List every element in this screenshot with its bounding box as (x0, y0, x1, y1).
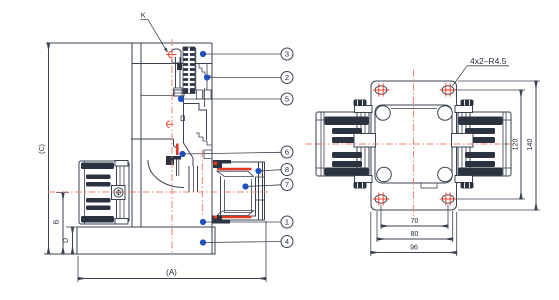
red nib bottom (214, 216, 218, 219)
dim 80 extensions (376, 211, 378, 242)
dim 140 (535, 81, 537, 210)
svg-text:D: D (63, 238, 70, 243)
terminal top nut (354, 100, 367, 107)
svg-text:4: 4 (285, 237, 289, 246)
tube shoulder line (141, 95, 174, 97)
big circle TR (438, 106, 453, 121)
leader dot 4 (200, 239, 206, 245)
zigzag boss (196, 133, 212, 145)
svg-text:5: 5 (285, 95, 289, 104)
svg-text:7: 7 (285, 180, 289, 189)
centerline horizontal (right view) (305, 143, 512, 145)
small plunger block (177, 63, 182, 70)
leader dot 2 (204, 74, 210, 80)
svg-text:70: 70 (411, 218, 419, 225)
leader dot 7 (242, 183, 248, 189)
cartridge outline (212, 162, 265, 220)
coil body (316, 112, 369, 176)
coil bottom band (81, 216, 114, 223)
balloon 2 (281, 72, 293, 84)
stem below seal (176, 156, 178, 176)
connector tab (354, 134, 376, 148)
passage left wall (183, 96, 185, 143)
dimension (A) (78, 278, 266, 280)
nut circle (114, 188, 123, 197)
wall nub (181, 116, 185, 121)
big circle BL (377, 167, 392, 182)
body face square (375, 105, 452, 183)
bottom gland wedge (217, 211, 254, 216)
big circle TL (376, 106, 391, 121)
dimension D extension (66, 226, 78, 228)
balloon 1 (281, 216, 293, 228)
coil left (right view) (316, 100, 376, 189)
red seal bottom (217, 216, 252, 219)
centerline horizontal main (left view) (48, 191, 268, 193)
pocket wall (174, 139, 178, 148)
clip bottom dark glyph (212, 216, 230, 224)
centerline vertical (right view) (413, 70, 415, 216)
leader dot 5 (178, 96, 184, 102)
pin foot (174, 88, 183, 96)
top gland wedge (217, 171, 254, 176)
terminal top block (355, 106, 373, 113)
cap ring horizontals (256, 176, 265, 178)
balloon 7 (281, 179, 293, 191)
svg-text:(A): (A) (166, 268, 177, 277)
coil right (right view) (452, 100, 512, 189)
leader dot 3 (200, 51, 206, 57)
dim 70 extensions (380, 205, 382, 229)
nut housing (112, 186, 126, 200)
funnel mouth (184, 143, 194, 166)
coil fin (86, 175, 111, 180)
balloon 8 (281, 164, 293, 176)
coil fin (86, 206, 111, 211)
seat tube (188, 166, 190, 192)
flange plate (371, 81, 457, 210)
svg-text:2: 2 (285, 73, 289, 82)
dim 96 extensions (370, 212, 372, 256)
base plate (77, 227, 215, 254)
pole piece (174, 90, 184, 96)
leader dot 6 (179, 151, 185, 157)
body left wall outer (131, 43, 133, 227)
bracket bottom tab (115, 219, 128, 225)
cartridge cap rings (258, 162, 260, 220)
coil (left view) body (79, 161, 117, 224)
svg-text:8: 8 (285, 165, 289, 174)
clip top dark glyph (213, 160, 231, 168)
bracket top tab (115, 161, 128, 167)
dimension D (72, 227, 74, 254)
cap step detail (199, 64, 212, 77)
balloon 4 (281, 236, 293, 248)
corner hole BL (373, 193, 390, 206)
svg-text:B: B (54, 219, 61, 224)
centerline cartridge vertical (left view) (201, 150, 203, 218)
leader dot 1 (200, 219, 206, 225)
coil top band (325, 117, 369, 126)
cup outer (221, 177, 256, 217)
coil fin (86, 182, 111, 187)
big circle BR (438, 167, 453, 182)
inner wall upper (203, 88, 205, 107)
coil end line (84, 161, 86, 224)
corner hole TR (440, 84, 457, 97)
dim 140 extensions (458, 80, 540, 82)
red seal on spool (176, 144, 179, 156)
terminal bottom nut (354, 182, 367, 189)
dim 120 (520, 90, 522, 199)
svg-text:1: 1 (285, 218, 289, 227)
balloon 3 (281, 48, 293, 60)
centerline vertical main (left view) (171, 39, 173, 255)
pin tube below override (175, 57, 177, 88)
svg-text:80: 80 (411, 231, 419, 238)
svg-text:6: 6 (285, 148, 289, 157)
bracket (357, 112, 369, 176)
inner wall top section (206, 64, 208, 90)
svg-text:96: 96 (410, 245, 418, 252)
body step to cartridge (204, 150, 212, 159)
red nib top (214, 162, 218, 166)
coil bracket (117, 163, 130, 221)
svg-text:140: 140 (527, 139, 534, 151)
clip 6 dark glyph (166, 156, 181, 165)
stack cavity right wall (195, 48, 197, 90)
K leader (141, 19, 149, 21)
coil top band (81, 163, 114, 170)
dim 70 (381, 225, 448, 227)
svg-text:K: K (141, 11, 146, 20)
passage top shoulder (184, 104, 207, 141)
fins (332, 128, 362, 134)
dimension (C) (48, 43, 50, 254)
square inner top line (391, 108, 437, 110)
base inner right edge (211, 227, 213, 254)
body cap bottom line (132, 63, 212, 65)
manual override pin (172, 49, 181, 63)
end cap lines (320, 112, 322, 176)
body right wall (211, 43, 213, 227)
svg-text:120: 120 (513, 139, 520, 151)
base bottom extension to (C) (44, 253, 77, 255)
square bottom boss (421, 183, 437, 188)
coil fin (86, 198, 111, 203)
red seal top (217, 168, 252, 171)
svg-text:4x2–R4.5: 4x2–R4.5 (470, 56, 507, 66)
coil pocket line (131, 138, 174, 140)
dim 96 (371, 252, 457, 254)
armature lamination stack (183, 47, 195, 94)
coil bottom band (325, 168, 369, 176)
dimension (A) extensions (77, 256, 79, 282)
terminal bottom block (355, 176, 373, 183)
dim 120 extensions (457, 89, 525, 91)
dimension B (62, 193, 64, 255)
manual override red mark (169, 51, 172, 58)
red mark mid (167, 121, 170, 128)
leader dot 8 (255, 168, 261, 174)
dim 80 (377, 238, 453, 240)
dimension B extension (56, 192, 69, 194)
svg-text:3: 3 (285, 50, 289, 59)
leader to hole (453, 66, 468, 86)
svg-text:(C): (C) (39, 144, 46, 154)
elbow passage arc (148, 160, 184, 188)
corner hole TL (373, 84, 390, 97)
balloon 5 (281, 93, 293, 105)
balloon 6 (281, 146, 293, 158)
cup inner (225, 180, 252, 213)
corner hole BR (440, 193, 457, 206)
body left wall inner (140, 43, 142, 227)
port cavity bumps (197, 90, 203, 99)
body top edge with extension to (C) (46, 42, 212, 44)
